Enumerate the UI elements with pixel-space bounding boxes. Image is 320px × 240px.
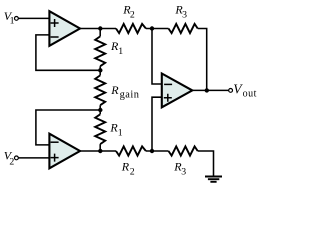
svg-text:3: 3 [181, 167, 186, 178]
svg-text:2: 2 [130, 167, 135, 178]
svg-text:1: 1 [118, 127, 123, 138]
svg-text:1: 1 [118, 46, 123, 57]
svg-text:R: R [121, 159, 130, 173]
svg-text:1: 1 [10, 15, 15, 26]
svg-text:R: R [110, 83, 119, 97]
svg-text:2: 2 [9, 156, 14, 167]
svg-text:2: 2 [130, 9, 135, 20]
svg-text:out: out [243, 89, 257, 100]
svg-text:gain: gain [120, 90, 140, 101]
svg-text:3: 3 [182, 9, 187, 20]
